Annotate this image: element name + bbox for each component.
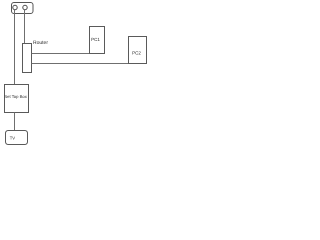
svg-text:PC2: PC2 [132,51,141,56]
router box [23,44,32,73]
PC2 box [129,37,147,64]
svg-text:PC1: PC1 [91,37,100,42]
PC1 box [90,27,105,54]
wire router to PC1 [32,53,90,55]
wire socket pin2 to Router [24,10,26,44]
set top box [5,85,29,113]
svg-text:Set Top Box: Set Top Box [4,94,27,99]
wire set top box to TV [14,113,16,131]
svg-text:TV: TV [10,135,16,140]
socket pin 1 [13,5,17,9]
socket pin 2 [23,5,27,9]
svg-text:Router: Router [33,40,48,46]
wire socket pin1 to Set Top Box [14,10,16,85]
wall socket outlet [12,3,34,14]
TV box [6,131,28,145]
wire router to PC2 [32,63,129,65]
